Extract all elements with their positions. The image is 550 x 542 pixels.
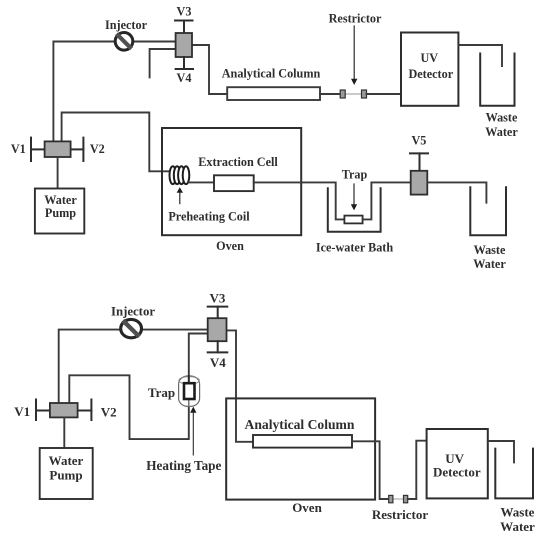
valve V4 symbol (bottom) [208,341,228,352]
valve V1 symbol (top) [31,138,45,161]
svg-text:UV: UV [445,451,464,466]
waste water beaker (top) [480,54,514,106]
restrictor ferrule 2 (bottom) [404,495,408,502]
trap capsule (bottom) [179,376,200,406]
six-port valve body V3/V4 (bottom) [208,318,227,341]
wire: V5 to waste water 2 [428,182,487,202]
wire: coil to extraction cell [189,181,214,183]
svg-text:Oven: Oven [216,239,244,253]
wire: UV to waste (bottom) [488,441,514,462]
valve body V5 [411,171,428,195]
water pump (bottom) [40,448,93,499]
wire: column to restrictor (bottom) [352,441,389,499]
svg-text:Oven: Oven [292,500,322,515]
svg-text:Water: Water [500,519,535,534]
restrictor capillary link (bottom) [393,498,404,500]
trap (top) [344,216,362,224]
arrow trap pointer (top) [351,184,357,210]
svg-text:Injector: Injector [111,304,155,318]
svg-text:Pump: Pump [45,206,76,220]
svg-text:Water: Water [473,257,506,271]
svg-text:Water: Water [49,453,84,468]
wire: restrictor to UV detector (bottom) [408,441,427,499]
svg-text:Waste: Waste [501,505,535,520]
svg-text:Analytical Column: Analytical Column [245,417,355,432]
wire: column to restrictor [320,93,340,95]
svg-text:Trap: Trap [342,168,368,182]
analytical column (bottom) [253,435,352,448]
svg-text:Extraction Cell: Extraction Cell [198,155,278,169]
oven (bottom) [226,398,375,499]
svg-text:V2: V2 [90,142,105,156]
injector (top) [115,33,133,51]
svg-text:Detector: Detector [433,465,481,480]
svg-text:V3: V3 [209,291,225,306]
valve V1 symbol (bottom) [36,400,50,421]
svg-text:Heating Tape: Heating Tape [146,458,221,473]
restrictor capillary link [345,93,361,95]
svg-text:Pump: Pump [49,467,82,482]
svg-text:UV: UV [420,51,438,65]
svg-text:V5: V5 [411,134,426,148]
pump valve body V1/V2 (bottom) [50,403,78,417]
waste water beaker (bottom) [495,449,533,499]
valve V3 symbol (bottom) [208,307,228,319]
preheating coil [170,166,190,184]
valve V4 symbol (top) [176,57,193,69]
svg-text:Injector: Injector [105,18,148,32]
wire through trap capsule [188,376,190,384]
arrow heating tape pointer [190,407,196,455]
svg-text:V1: V1 [11,142,26,156]
wire: pump valve port2 to preheating coil [62,113,171,172]
wire: valve to water pump [57,157,59,189]
six-port valve body V3/V4 (top) [176,33,192,57]
restrictor ferrule 1 (bottom) [389,495,393,502]
svg-text:Ice-water Bath: Ice-water Bath [316,241,394,255]
oven (top) [162,128,301,235]
wire: UV detector to waste water [458,45,502,66]
wire: valve to water pump (bottom) [63,417,65,448]
svg-text:V2: V2 [101,404,117,419]
UV detector (bottom) [427,429,488,498]
wire: pump valve port1 up and injector line to V3/V4 valve [53,42,175,142]
arrow restrictor pointer (top) [351,26,357,85]
UV detector (top) [401,33,458,106]
restrictor ferrule 1 (top) [340,90,345,98]
svg-text:Preheating Coil: Preheating Coil [168,210,250,224]
svg-text:Waste: Waste [474,243,506,257]
svg-text:V4: V4 [177,71,192,85]
ice-water bath beaker [328,188,381,232]
valve V2 symbol (top) [71,138,84,161]
wire: stub from valve left port down [150,49,176,77]
svg-text:Waste: Waste [486,110,518,124]
svg-text:V3: V3 [177,4,192,18]
wire: valve right port to analytical column [192,45,227,94]
valve V3 symbol (top) [175,21,193,34]
valve V5 symbol [410,153,428,170]
wire: extraction cell to trap dip [254,182,345,219]
valve V2 symbol (bottom) [78,400,92,421]
svg-text:Analytical Column: Analytical Column [222,67,321,81]
svg-text:Restrictor: Restrictor [372,507,429,522]
injector (bottom) [121,319,142,337]
wire: valve left lower port to trap line [69,334,207,440]
arrow preheating coil pointer [177,187,183,203]
extraction cell [214,175,254,191]
wire: pump valve port1 up and injector line to V3/V4 valve (bottom) [59,330,208,403]
svg-text:Water: Water [44,193,77,207]
svg-text:V4: V4 [210,355,226,370]
svg-text:Trap: Trap [148,385,175,400]
trap capsule rim [179,377,199,385]
wire: restrictor to UV detector [367,93,402,95]
wire: trap up and to valve V5 [363,182,411,219]
svg-text:Restrictor: Restrictor [329,11,382,25]
pump valve body V1/V2 (top) [45,141,71,157]
water pump (top) [35,189,84,234]
svg-text:V1: V1 [14,404,30,419]
trap inner tube (bottom) [184,383,195,399]
svg-text:Detector: Detector [408,67,453,81]
wire: valve right port down to analytical column (bottom) [227,330,254,441]
waste water beaker 2 (top diagram right) [470,187,506,235]
svg-text:Water: Water [485,125,518,139]
analytical column (top) [227,87,320,100]
restrictor ferrule 2 (top) [362,90,367,98]
